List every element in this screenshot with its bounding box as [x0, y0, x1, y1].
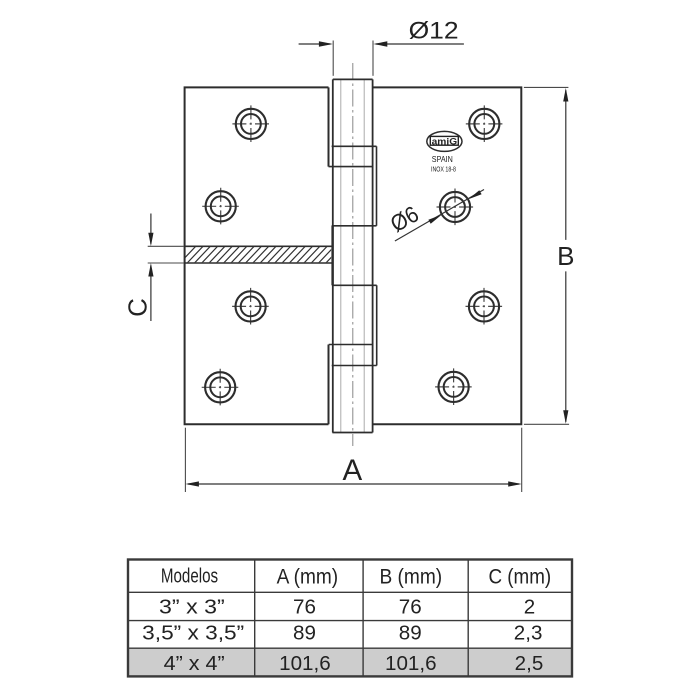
- barrel outline: [332, 79, 372, 432]
- dimension A: dimension line with arrows: [188, 483, 519, 485]
- dimension A: extension lines: [184, 428, 186, 492]
- svg-text:89: 89: [399, 622, 422, 645]
- svg-text:Ø12: Ø12: [409, 18, 459, 45]
- AMIG logo: [427, 131, 462, 151]
- sectioned knuckle wall: [331, 226, 333, 285]
- screw hole H6: [437, 189, 474, 226]
- screw hole H3: [232, 288, 269, 325]
- svg-text:amiG: amiG: [432, 136, 458, 147]
- svg-text:76: 76: [399, 596, 422, 619]
- svg-text:2,3: 2,3: [514, 622, 543, 645]
- screw hole H4: [202, 369, 239, 406]
- table row highlight: [128, 648, 572, 676]
- svg-text:B (mm): B (mm): [379, 565, 442, 589]
- table grid: [128, 560, 572, 677]
- right leaf plate: [373, 87, 522, 424]
- table: [128, 560, 572, 677]
- dimension B: dimension line with arrows: [565, 90, 567, 240]
- svg-text:Modelos: Modelos: [161, 566, 218, 588]
- leaf section hatch band: [178, 246, 349, 265]
- dimension C: dimension lines with arrows: [150, 214, 152, 244]
- svg-text:A: A: [342, 454, 362, 487]
- dimension C: extension lines: [148, 245, 184, 247]
- dimension D6: arrows at hole edge: [468, 190, 481, 199]
- left leaf plate: [185, 87, 329, 424]
- svg-text:2,5: 2,5: [515, 652, 544, 675]
- svg-text:101,6: 101,6: [385, 652, 437, 675]
- svg-text:89: 89: [293, 622, 316, 645]
- svg-text:76: 76: [293, 596, 316, 619]
- hinge barrel centerline: [352, 63, 354, 446]
- svg-text:C (mm): C (mm): [488, 565, 551, 589]
- svg-text:3,5” x 3,5”: 3,5” x 3,5”: [142, 622, 244, 645]
- hinge pin hidden lines: [340, 80, 342, 433]
- dimension D12: dimension lines with arrows: [299, 43, 331, 45]
- screw hole H8: [435, 368, 472, 405]
- svg-text:INOX 18-8: INOX 18-8: [431, 167, 456, 174]
- dimension D6: leader line: [395, 190, 484, 242]
- svg-text:SPAIN: SPAIN: [432, 154, 453, 164]
- svg-text:2: 2: [524, 596, 535, 619]
- dimension B: extension lines: [524, 86, 569, 88]
- screw hole H2: [202, 188, 239, 225]
- dimension D12: extension lines: [332, 41, 334, 76]
- screw hole H1: [232, 105, 269, 142]
- svg-text:C: C: [122, 298, 152, 317]
- screw hole H7: [466, 288, 503, 325]
- knuckle joint lines: [329, 146, 377, 365]
- svg-text:A (mm): A (mm): [277, 565, 339, 589]
- svg-text:B: B: [557, 241, 574, 271]
- svg-text:3” x 3”: 3” x 3”: [159, 596, 225, 619]
- svg-text:101,6: 101,6: [279, 652, 331, 675]
- svg-text:4” x 4”: 4” x 4”: [164, 652, 225, 675]
- screw hole H5: [466, 105, 503, 142]
